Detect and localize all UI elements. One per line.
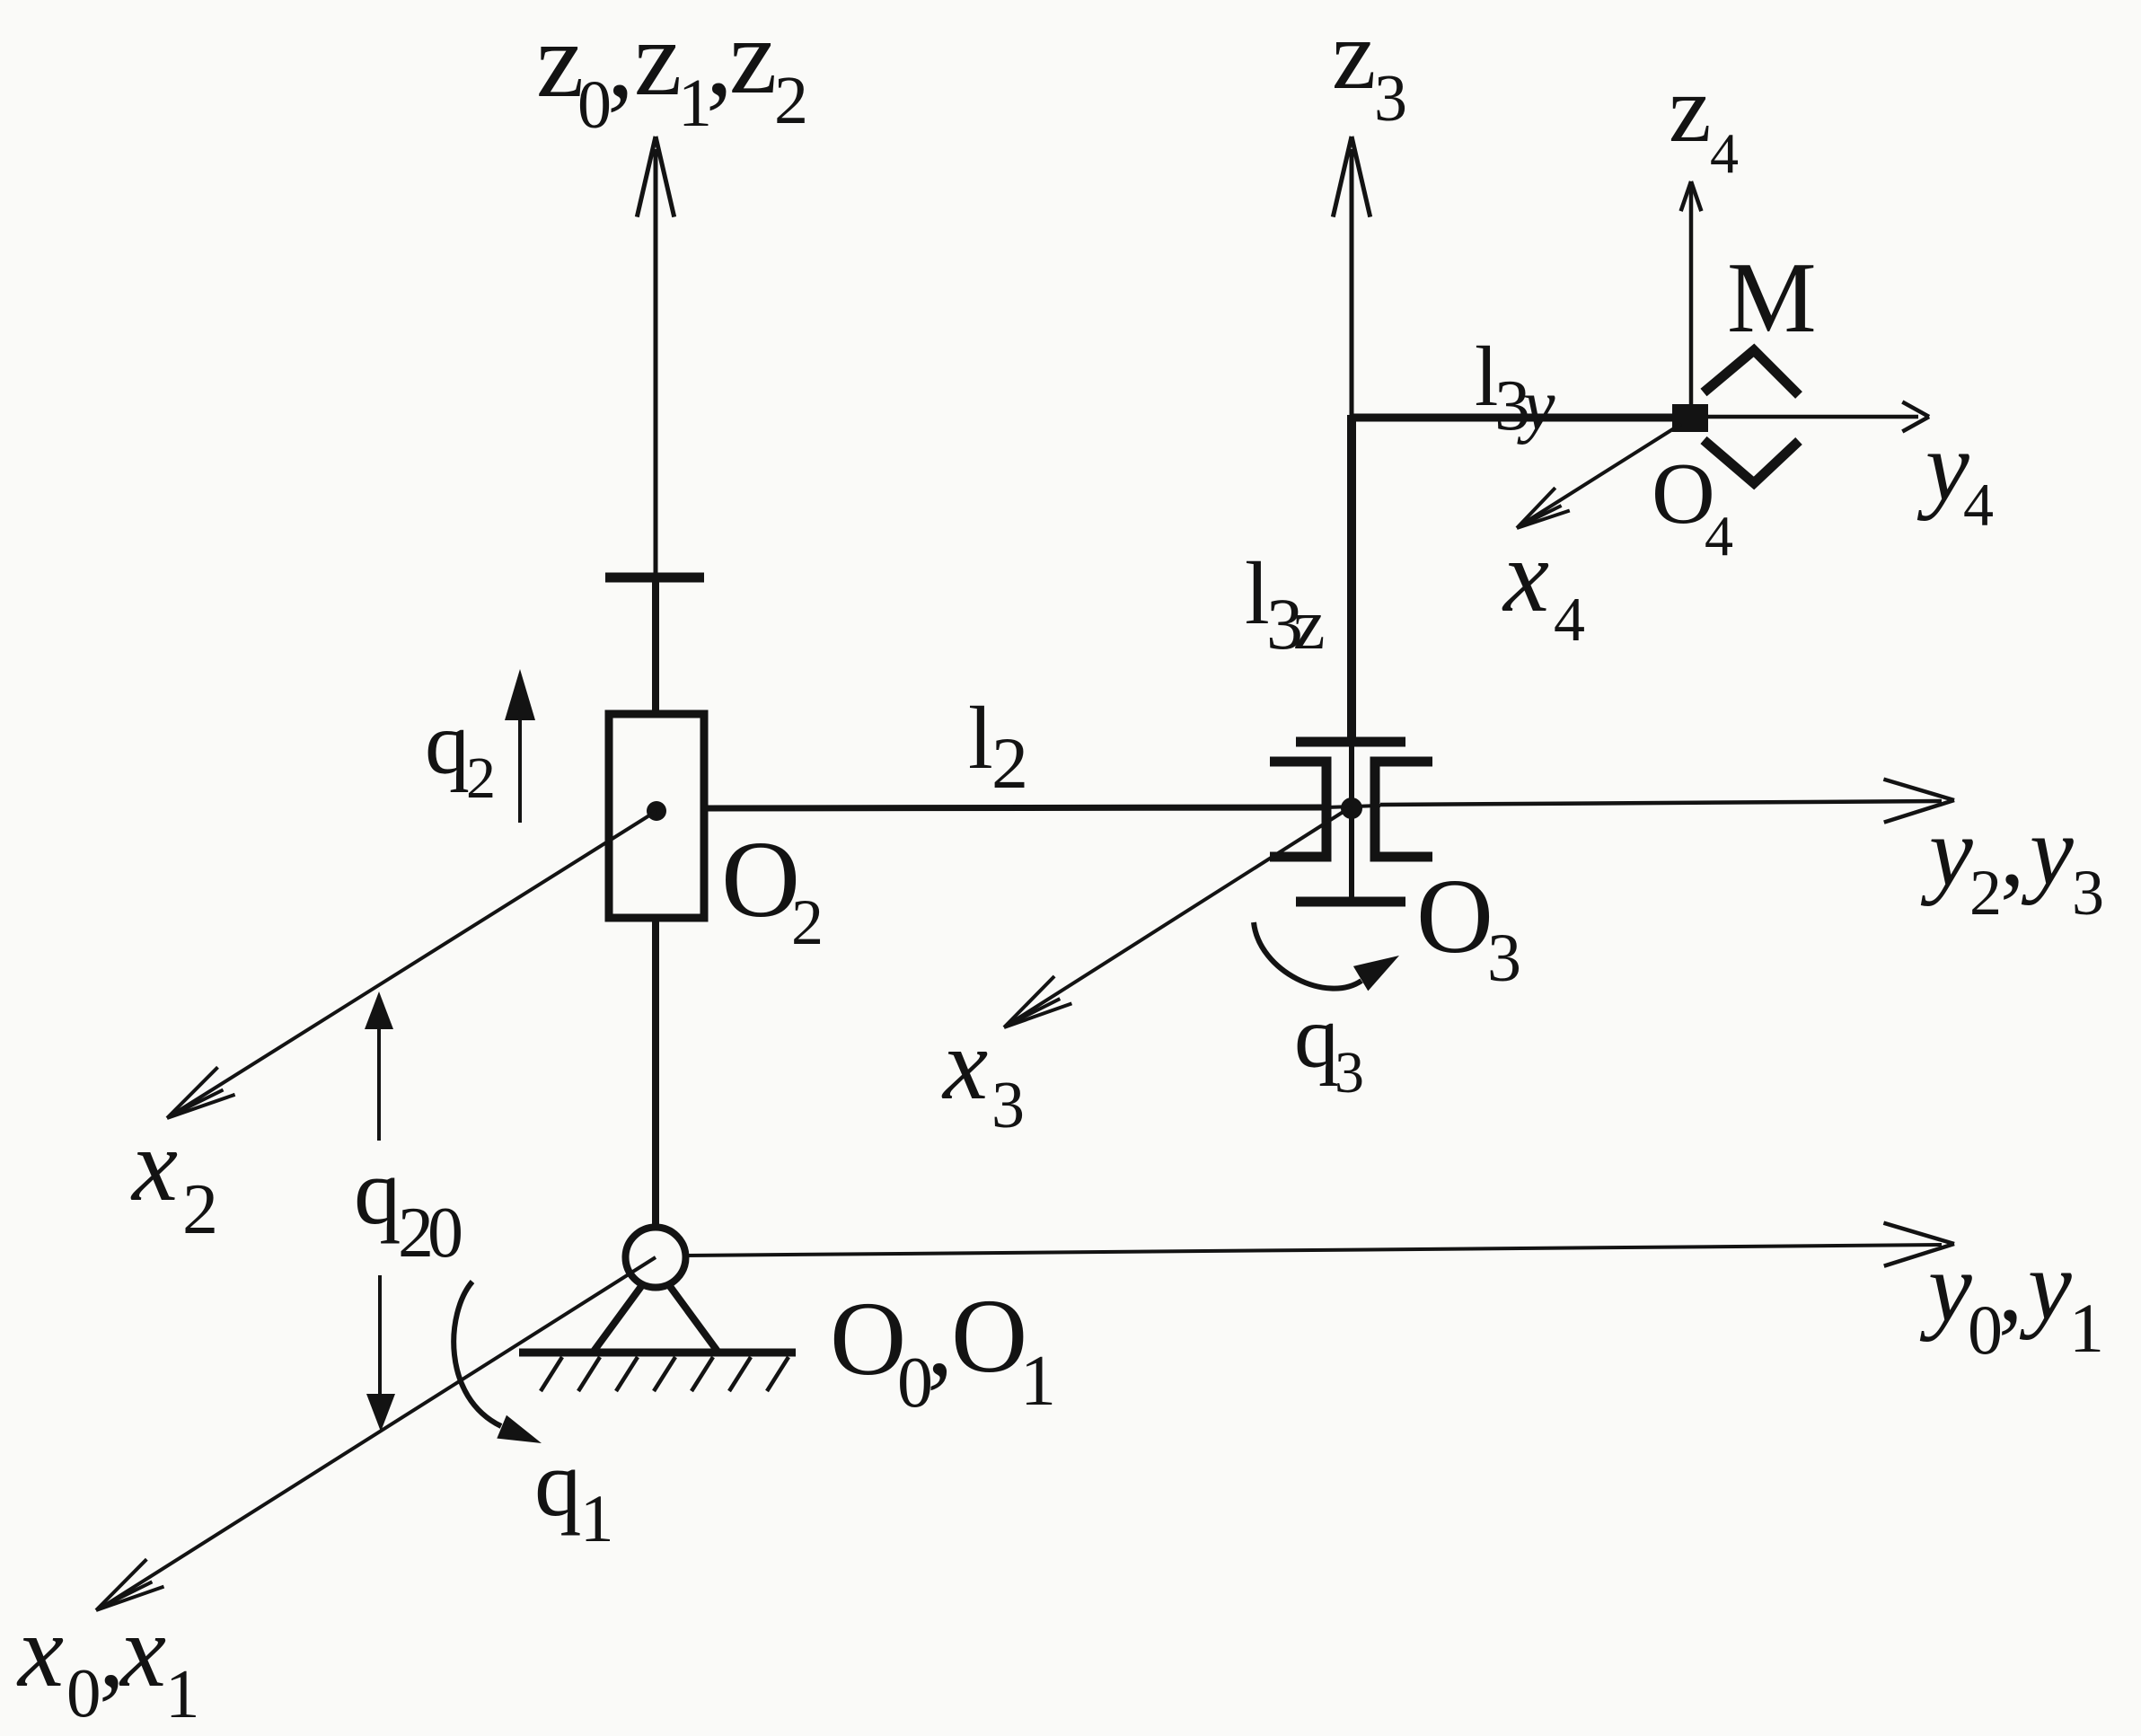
svg-text:x: x xyxy=(941,1009,988,1121)
svg-text:x: x xyxy=(16,1594,64,1708)
svg-text:2: 2 xyxy=(182,1170,218,1249)
svg-text:2: 2 xyxy=(466,745,496,811)
svg-text:3: 3 xyxy=(1374,62,1407,136)
svg-text:1: 1 xyxy=(1020,1342,1056,1421)
svg-text:z: z xyxy=(634,0,682,118)
svg-text:3: 3 xyxy=(991,1069,1025,1142)
svg-text:q: q xyxy=(425,693,470,793)
svg-text:2: 2 xyxy=(1969,857,2002,929)
svg-text:z: z xyxy=(729,0,777,116)
svg-text:3: 3 xyxy=(2072,857,2104,929)
svg-text:x: x xyxy=(1502,519,1549,633)
svg-text:y: y xyxy=(1517,366,1555,445)
svg-text:1: 1 xyxy=(580,1482,614,1556)
svg-text:3: 3 xyxy=(1335,1040,1364,1106)
svg-text:q: q xyxy=(354,1139,401,1244)
svg-text:3: 3 xyxy=(1487,921,1521,996)
svg-text:0: 0 xyxy=(427,1194,463,1273)
svg-text:z: z xyxy=(1332,0,1376,110)
svg-text:z: z xyxy=(1293,586,1326,665)
svg-text:q: q xyxy=(534,1431,582,1536)
svg-text:0: 0 xyxy=(66,1654,101,1732)
svg-text:2: 2 xyxy=(774,63,808,138)
svg-text:O: O xyxy=(721,819,800,940)
svg-text:M: M xyxy=(1727,242,1817,354)
svg-text:4: 4 xyxy=(1705,504,1733,568)
svg-text:,: , xyxy=(927,1280,954,1397)
svg-text:4: 4 xyxy=(1963,471,1994,539)
svg-text:,: , xyxy=(2000,797,2025,906)
svg-text:2: 2 xyxy=(991,722,1028,804)
svg-text:2: 2 xyxy=(791,886,824,958)
svg-text:4: 4 xyxy=(1554,586,1585,655)
svg-text:x: x xyxy=(130,1108,178,1222)
svg-text:O: O xyxy=(830,1280,906,1397)
svg-text:q: q xyxy=(1294,987,1339,1087)
svg-text:,: , xyxy=(1998,1232,2023,1342)
svg-text:O: O xyxy=(1416,857,1493,975)
svg-text:O: O xyxy=(951,1277,1027,1395)
svg-text:4: 4 xyxy=(1710,121,1739,185)
svg-text:1: 1 xyxy=(2069,1289,2104,1367)
svg-text:,: , xyxy=(607,0,634,119)
svg-text:x: x xyxy=(119,1594,166,1708)
svg-text:1: 1 xyxy=(165,1655,200,1732)
svg-text:z: z xyxy=(1669,57,1712,163)
svg-text:l: l xyxy=(968,688,993,788)
